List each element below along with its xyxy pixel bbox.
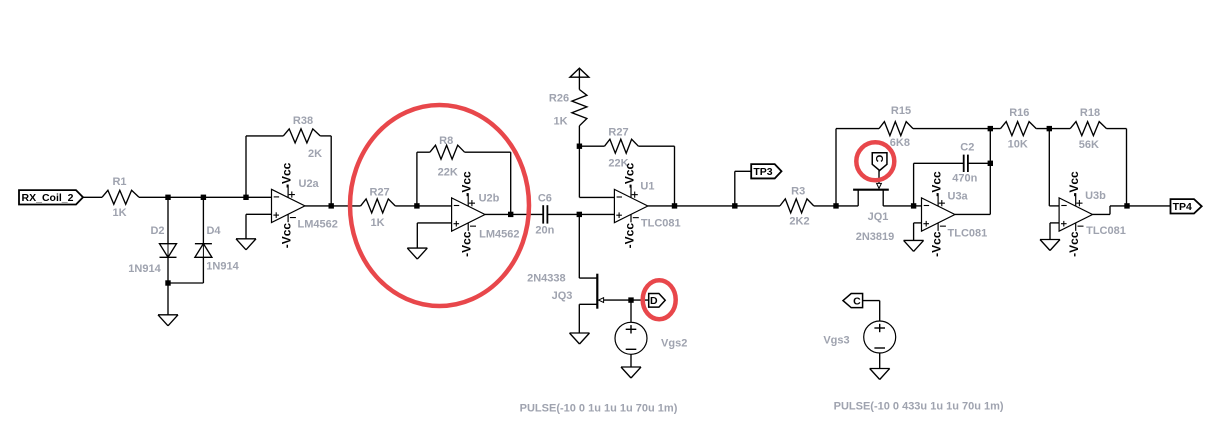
svg-text:-Vcc: -Vcc: [930, 171, 944, 197]
svg-text:R18: R18: [1080, 107, 1100, 119]
svg-text:R27: R27: [370, 187, 390, 199]
svg-text:D4: D4: [206, 225, 221, 237]
svg-text:1K: 1K: [553, 116, 567, 128]
svg-text:TLC081: TLC081: [1086, 225, 1126, 237]
svg-text:JQ1: JQ1: [868, 211, 889, 223]
svg-text:LM4562: LM4562: [298, 218, 338, 230]
svg-text:-Vcc: -Vcc: [930, 231, 944, 257]
svg-text:470n: 470n: [952, 172, 977, 184]
svg-text:U2b: U2b: [479, 192, 500, 204]
svg-text:10K: 10K: [1008, 139, 1028, 151]
svg-text:Vgs2: Vgs2: [661, 338, 687, 350]
svg-text:C: C: [873, 155, 885, 163]
svg-text:TP3: TP3: [753, 166, 772, 178]
svg-text:-Vcc: -Vcc: [1067, 231, 1081, 257]
svg-text:22K: 22K: [438, 167, 458, 179]
svg-text:U3a: U3a: [948, 191, 969, 203]
svg-text:RX_Coil_2: RX_Coil_2: [22, 192, 74, 204]
svg-text:U3b: U3b: [1085, 190, 1106, 202]
svg-text:LM4562: LM4562: [479, 228, 519, 240]
svg-text:-Vcc: -Vcc: [1067, 171, 1081, 197]
svg-text:6K8: 6K8: [890, 137, 910, 149]
svg-text:-Vcc: -Vcc: [280, 223, 294, 249]
svg-text:R3: R3: [791, 185, 805, 197]
svg-text:R1: R1: [112, 176, 126, 188]
svg-text:R15: R15: [891, 105, 911, 117]
svg-text:U2a: U2a: [299, 178, 320, 190]
svg-text:2N3819: 2N3819: [856, 231, 895, 243]
svg-text:Vgs3: Vgs3: [823, 335, 849, 347]
svg-text:2K: 2K: [308, 148, 322, 160]
svg-text:1K: 1K: [112, 207, 126, 219]
svg-text:D2: D2: [150, 225, 164, 237]
svg-text:U1: U1: [640, 180, 654, 192]
svg-text:D: D: [650, 295, 658, 307]
svg-text:R27: R27: [608, 127, 628, 139]
svg-text:JQ3: JQ3: [552, 290, 573, 302]
svg-text:PULSE(-10 0 1u 1u 1u 70u 1m): PULSE(-10 0 1u 1u 1u 70u 1m): [520, 403, 678, 415]
svg-text:1N914: 1N914: [206, 260, 239, 272]
svg-text:PULSE(-10 0 433u 1u 1u 70u 1m): PULSE(-10 0 433u 1u 1u 70u 1m): [834, 401, 1004, 413]
svg-text:R8: R8: [439, 135, 453, 147]
svg-text:-Vcc: -Vcc: [623, 162, 637, 188]
svg-text:C6: C6: [538, 193, 552, 205]
svg-text:1N914: 1N914: [128, 263, 161, 275]
svg-text:2N4338: 2N4338: [527, 273, 566, 285]
svg-text:TLC081: TLC081: [641, 218, 681, 230]
svg-text:-Vcc: -Vcc: [623, 223, 637, 249]
svg-text:-Vcc: -Vcc: [460, 231, 474, 257]
svg-text:C2: C2: [960, 142, 974, 154]
svg-text:R26: R26: [549, 92, 569, 104]
svg-text:-Vcc: -Vcc: [460, 171, 474, 197]
svg-text:20n: 20n: [535, 224, 554, 236]
svg-text:C: C: [853, 295, 861, 307]
svg-text:-Vcc: -Vcc: [280, 162, 294, 188]
svg-text:56K: 56K: [1079, 139, 1099, 151]
svg-text:2K2: 2K2: [789, 216, 809, 228]
svg-text:TP4: TP4: [1173, 201, 1192, 213]
svg-text:TLC081: TLC081: [948, 228, 988, 240]
svg-text:1K: 1K: [370, 217, 384, 229]
svg-text:R38: R38: [293, 115, 313, 127]
svg-text:R16: R16: [1009, 107, 1029, 119]
